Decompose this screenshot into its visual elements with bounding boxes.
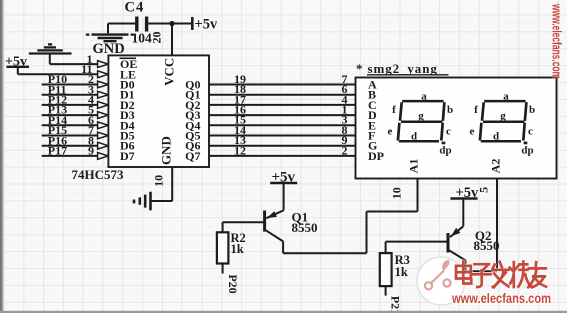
svg-text:D7: D7 — [120, 149, 135, 163]
svg-text:1k: 1k — [395, 265, 408, 279]
svg-text:c: c — [446, 125, 451, 137]
svg-text:d: d — [411, 130, 417, 142]
svg-text:b: b — [529, 104, 535, 116]
svg-text:5: 5 — [477, 187, 491, 193]
svg-text:c: c — [528, 125, 533, 137]
svg-text:www.elecfans.com: www.elecfans.com — [451, 290, 551, 306]
svg-text:10: 10 — [390, 187, 404, 199]
svg-text:www.elecfans.com: www.elecfans.com — [550, 3, 565, 79]
svg-text:VCC: VCC — [162, 58, 177, 86]
svg-text:8550: 8550 — [474, 238, 500, 253]
svg-text:Q7: Q7 — [185, 149, 200, 163]
svg-text:g: g — [500, 110, 506, 122]
svg-text:DP: DP — [368, 149, 384, 163]
svg-text:1k: 1k — [231, 242, 244, 256]
svg-text:74HC573: 74HC573 — [72, 167, 125, 182]
svg-text:*: * — [356, 61, 363, 76]
svg-text:P21: P21 — [389, 296, 403, 313]
svg-text:b: b — [447, 104, 453, 116]
svg-text:dp: dp — [521, 145, 533, 157]
svg-text:e: e — [388, 125, 393, 137]
svg-text:GND: GND — [159, 136, 174, 165]
svg-text:P20: P20 — [226, 274, 240, 293]
svg-text:8550: 8550 — [292, 220, 318, 235]
svg-text:f: f — [474, 104, 478, 116]
svg-text:e: e — [470, 125, 475, 137]
svg-text:a: a — [421, 90, 427, 102]
svg-text:dp: dp — [439, 145, 451, 157]
svg-text:A1: A1 — [407, 159, 421, 174]
svg-text:A2: A2 — [489, 159, 503, 174]
svg-text:10: 10 — [152, 175, 166, 187]
svg-text:C4: C4 — [125, 0, 145, 16]
svg-text:d: d — [493, 130, 499, 142]
svg-text:+5v: +5v — [195, 17, 219, 33]
svg-text:f: f — [392, 104, 396, 116]
svg-text:a: a — [503, 90, 509, 102]
svg-text:smg2_yang: smg2_yang — [368, 61, 438, 76]
svg-text:g: g — [418, 110, 424, 122]
svg-text:20: 20 — [150, 32, 164, 44]
